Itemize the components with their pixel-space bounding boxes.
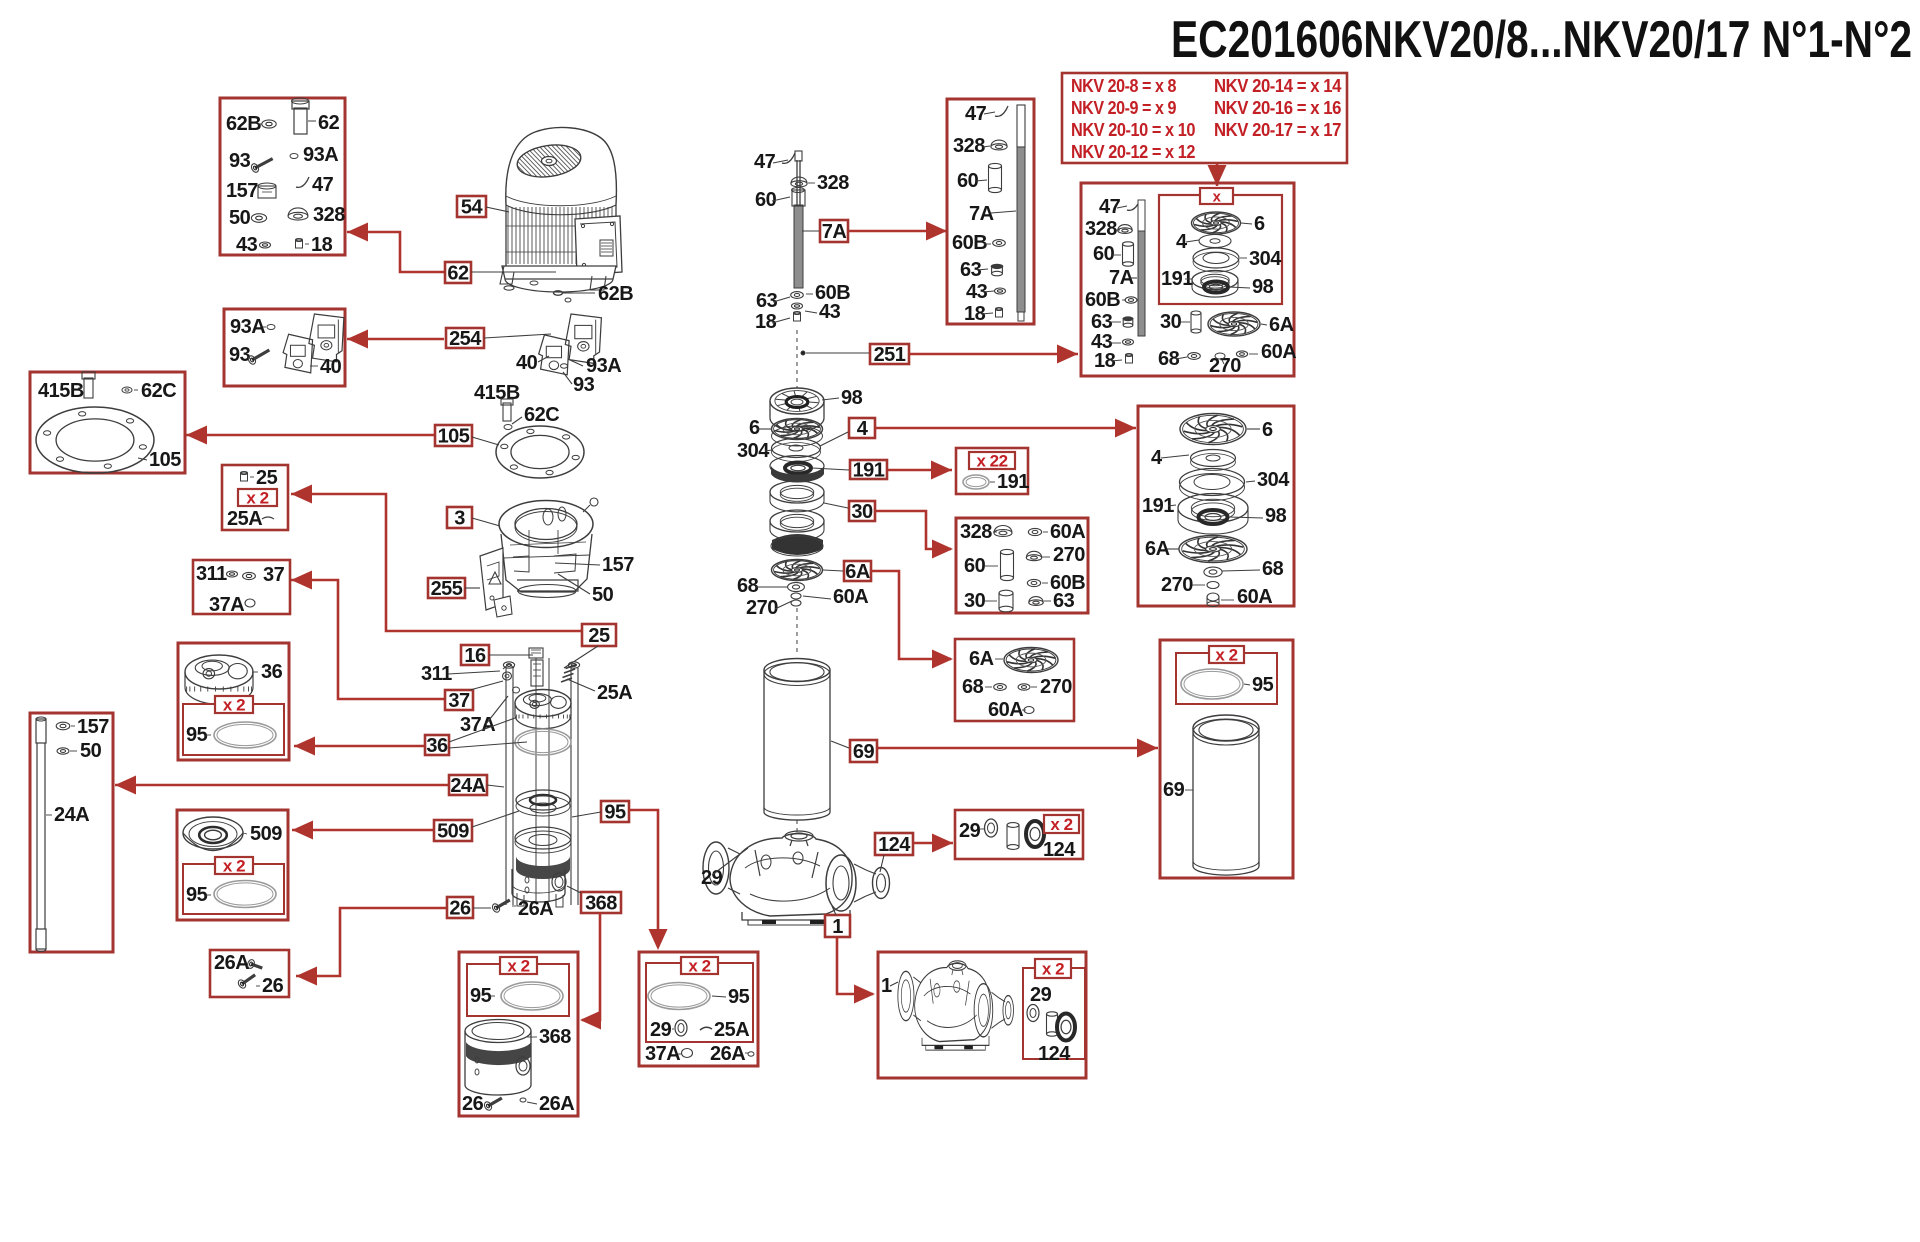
svg-text:x 2: x 2: [1050, 815, 1072, 834]
svg-text:69: 69: [853, 741, 875, 763]
svg-text:29: 29: [1030, 984, 1052, 1006]
svg-text:270: 270: [1053, 544, 1085, 566]
svg-text:328: 328: [953, 135, 985, 157]
svg-text:NKV 20-14 = x 14: NKV 20-14 = x 14: [1214, 76, 1341, 96]
svg-text:6A: 6A: [845, 561, 870, 583]
svg-text:68: 68: [737, 575, 759, 597]
svg-text:6A: 6A: [1145, 538, 1170, 560]
svg-text:62: 62: [318, 112, 340, 134]
svg-text:69: 69: [1163, 779, 1185, 801]
svg-text:25A: 25A: [227, 508, 262, 530]
svg-text:40: 40: [320, 356, 342, 378]
svg-text:98: 98: [841, 387, 863, 409]
svg-text:368: 368: [539, 1026, 571, 1048]
svg-text:254: 254: [449, 328, 482, 350]
svg-text:x 22: x 22: [976, 452, 1007, 471]
svg-text:311: 311: [196, 563, 227, 585]
svg-text:x 2: x 2: [1042, 960, 1064, 979]
svg-text:29: 29: [959, 820, 981, 842]
svg-text:6A: 6A: [1269, 314, 1294, 336]
svg-text:50: 50: [80, 740, 102, 762]
svg-text:60: 60: [964, 555, 986, 577]
svg-text:43: 43: [819, 301, 841, 323]
svg-text:NKV 20-12 = x 12: NKV 20-12 = x 12: [1071, 142, 1195, 162]
svg-text:98: 98: [1252, 276, 1274, 298]
svg-text:25A: 25A: [714, 1019, 749, 1041]
svg-text:26A: 26A: [518, 898, 553, 920]
svg-text:30: 30: [964, 590, 986, 612]
svg-text:311: 311: [421, 663, 452, 685]
svg-text:105: 105: [149, 449, 181, 471]
svg-text:37A: 37A: [645, 1043, 680, 1065]
svg-text:x 2: x 2: [1215, 646, 1237, 665]
svg-text:x: x: [1213, 188, 1222, 205]
svg-text:60A: 60A: [1237, 586, 1272, 608]
svg-text:7A: 7A: [1109, 267, 1134, 289]
svg-text:62B: 62B: [598, 283, 633, 305]
svg-text:157: 157: [226, 180, 258, 202]
svg-text:60B: 60B: [1085, 289, 1120, 311]
svg-text:62C: 62C: [524, 404, 559, 426]
svg-text:255: 255: [431, 578, 463, 600]
svg-text:54: 54: [461, 197, 484, 219]
svg-text:60A: 60A: [833, 586, 868, 608]
svg-text:16: 16: [464, 645, 486, 667]
svg-text:62C: 62C: [141, 380, 176, 402]
svg-text:304: 304: [1257, 469, 1290, 491]
svg-text:25A: 25A: [597, 682, 632, 704]
svg-text:26A: 26A: [539, 1093, 574, 1115]
svg-text:124: 124: [1038, 1043, 1071, 1065]
svg-text:93: 93: [229, 150, 251, 172]
svg-text:415B: 415B: [38, 380, 84, 402]
svg-text:6: 6: [749, 417, 760, 439]
svg-text:157: 157: [77, 716, 109, 738]
svg-text:37: 37: [263, 564, 285, 586]
svg-text:93: 93: [573, 374, 595, 396]
svg-text:95: 95: [186, 724, 208, 746]
svg-text:EC201606NKV20/8...NKV20/17 N°1: EC201606NKV20/8...NKV20/17 N°1-N°2: [1171, 11, 1912, 69]
svg-text:62: 62: [447, 263, 469, 285]
svg-text:270: 270: [1040, 676, 1072, 698]
svg-text:62B: 62B: [226, 113, 261, 135]
svg-text:60: 60: [755, 189, 777, 211]
svg-text:328: 328: [960, 521, 992, 543]
svg-text:29: 29: [650, 1019, 672, 1041]
svg-text:509: 509: [437, 821, 469, 843]
svg-text:328: 328: [817, 172, 849, 194]
svg-text:93A: 93A: [230, 316, 265, 338]
svg-text:68: 68: [962, 676, 984, 698]
svg-text:4: 4: [857, 418, 869, 440]
svg-text:191: 191: [997, 471, 1029, 493]
svg-text:x 2: x 2: [223, 696, 245, 715]
svg-text:18: 18: [311, 234, 333, 256]
svg-text:NKV 20-8 = x 8: NKV 20-8 = x 8: [1071, 76, 1176, 96]
svg-text:24A: 24A: [450, 775, 485, 797]
svg-text:29: 29: [701, 867, 723, 889]
svg-text:24A: 24A: [54, 804, 89, 826]
svg-text:47: 47: [754, 151, 776, 173]
svg-text:60A: 60A: [1050, 521, 1085, 543]
svg-text:26: 26: [449, 898, 471, 920]
svg-text:36: 36: [261, 661, 283, 683]
svg-text:95: 95: [470, 985, 492, 1007]
svg-text:7A: 7A: [822, 221, 847, 243]
svg-text:60: 60: [1093, 243, 1115, 265]
svg-text:25: 25: [256, 467, 278, 489]
svg-text:157: 157: [602, 554, 634, 576]
svg-text:68: 68: [1262, 558, 1284, 580]
svg-text:328: 328: [313, 204, 345, 226]
svg-text:93: 93: [229, 344, 251, 366]
svg-text:6A: 6A: [969, 648, 994, 670]
svg-text:47: 47: [965, 103, 987, 125]
svg-text:60B: 60B: [952, 232, 987, 254]
svg-text:304: 304: [1249, 248, 1282, 270]
svg-text:95: 95: [1252, 674, 1274, 696]
svg-text:270: 270: [1161, 574, 1193, 596]
svg-text:18: 18: [755, 311, 777, 333]
svg-text:30: 30: [851, 501, 873, 523]
svg-text:3: 3: [454, 508, 465, 530]
svg-text:37: 37: [448, 690, 470, 712]
svg-text:x 2: x 2: [507, 957, 529, 976]
svg-text:36: 36: [426, 735, 448, 757]
svg-text:40: 40: [516, 352, 538, 374]
svg-text:25: 25: [588, 625, 610, 647]
svg-text:NKV 20-9 = x 9: NKV 20-9 = x 9: [1071, 98, 1176, 118]
svg-text:6: 6: [1262, 419, 1273, 441]
svg-text:37A: 37A: [209, 594, 244, 616]
svg-text:x 2: x 2: [246, 489, 268, 508]
svg-text:95: 95: [604, 802, 626, 824]
svg-text:95: 95: [186, 884, 208, 906]
svg-text:50: 50: [229, 207, 251, 229]
svg-text:60A: 60A: [1261, 341, 1296, 363]
svg-text:NKV 20-10 = x 10: NKV 20-10 = x 10: [1071, 120, 1195, 140]
svg-text:x 2: x 2: [688, 957, 710, 976]
svg-text:NKV 20-17 = x 17: NKV 20-17 = x 17: [1214, 120, 1341, 140]
svg-text:368: 368: [585, 893, 617, 915]
svg-text:63: 63: [756, 290, 778, 312]
svg-text:63: 63: [1053, 590, 1075, 612]
svg-text:26A: 26A: [710, 1043, 745, 1065]
svg-text:95: 95: [728, 986, 750, 1008]
svg-text:251: 251: [874, 344, 906, 366]
svg-text:50: 50: [592, 584, 614, 606]
svg-text:270: 270: [1209, 355, 1241, 377]
svg-text:7A: 7A: [969, 203, 994, 225]
svg-text:6: 6: [1254, 213, 1265, 235]
svg-text:191: 191: [853, 460, 885, 482]
svg-text:124: 124: [1043, 839, 1076, 861]
svg-text:105: 105: [438, 426, 470, 448]
svg-text:47: 47: [1099, 196, 1121, 218]
svg-text:124: 124: [878, 834, 911, 856]
svg-text:37A: 37A: [460, 714, 495, 736]
svg-text:26: 26: [262, 975, 284, 997]
svg-text:47: 47: [312, 174, 334, 196]
svg-text:43: 43: [236, 234, 258, 256]
svg-text:x 2: x 2: [223, 857, 245, 876]
svg-text:509: 509: [250, 823, 282, 845]
svg-text:30: 30: [1160, 311, 1182, 333]
svg-text:26A: 26A: [214, 952, 249, 974]
svg-text:26: 26: [462, 1093, 484, 1115]
svg-text:NKV 20-16 = x 16: NKV 20-16 = x 16: [1214, 98, 1341, 118]
svg-text:93A: 93A: [303, 144, 338, 166]
svg-text:328: 328: [1085, 218, 1117, 240]
svg-text:98: 98: [1265, 505, 1287, 527]
svg-text:270: 270: [746, 597, 778, 619]
svg-text:60A: 60A: [988, 699, 1023, 721]
svg-text:1: 1: [832, 916, 843, 938]
